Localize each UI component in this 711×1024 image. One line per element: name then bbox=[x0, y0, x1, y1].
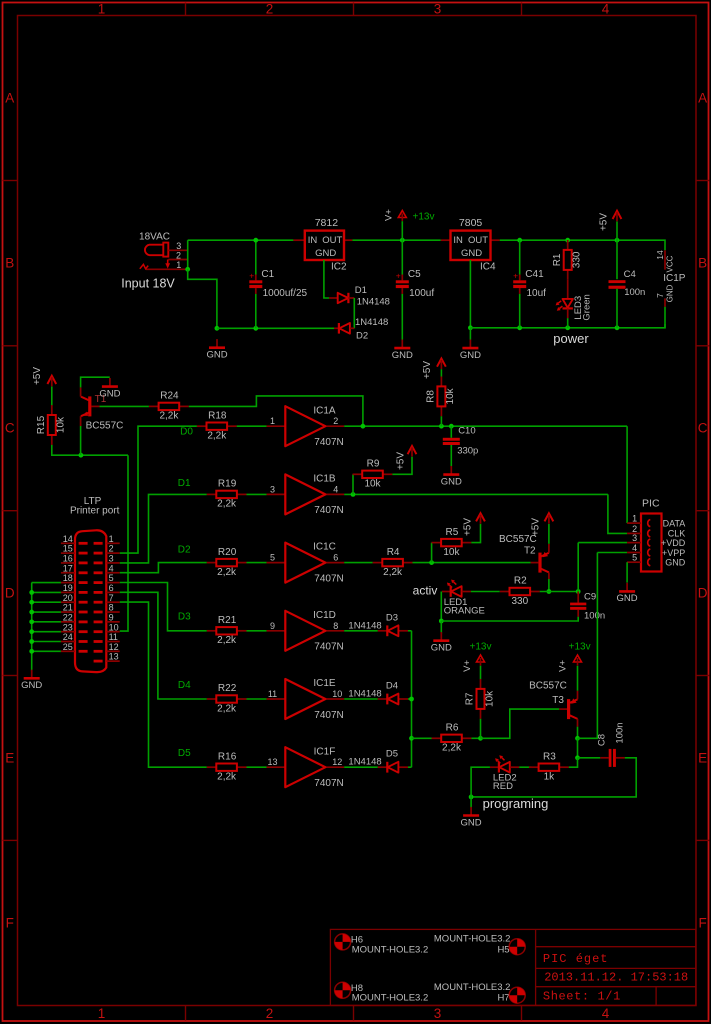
wire to diode D4 bbox=[344, 698, 378, 700]
svg-text:C: C bbox=[698, 421, 708, 436]
wire +VDD vertical bbox=[577, 543, 579, 592]
svg-text:D2: D2 bbox=[178, 545, 191, 556]
svg-text:2: 2 bbox=[109, 544, 114, 554]
svg-text:GND: GND bbox=[21, 680, 42, 691]
svg-text:IC2: IC2 bbox=[331, 261, 347, 272]
svg-text:R18: R18 bbox=[208, 410, 227, 421]
junction bbox=[79, 453, 84, 458]
svg-text:OUT: OUT bbox=[468, 235, 488, 246]
svg-text:R21: R21 bbox=[218, 615, 237, 626]
svg-text:4: 4 bbox=[109, 563, 114, 573]
svg-text:7: 7 bbox=[655, 293, 665, 298]
+5V supply R5 bbox=[463, 513, 485, 536]
diode D5 1N4148 bbox=[348, 749, 408, 773]
resistor R24 2,2k bbox=[149, 391, 189, 422]
wire to diode D5 bbox=[344, 766, 378, 768]
wire D3 out bbox=[408, 630, 412, 632]
buffer IC1B 7407N bbox=[267, 474, 345, 517]
svg-text:R1: R1 bbox=[552, 253, 563, 266]
wire T1 base to R24 bbox=[100, 405, 149, 407]
wire IC1A output / DATA net bbox=[344, 425, 627, 427]
svg-text:6: 6 bbox=[333, 553, 338, 563]
junction bus pin 25 bbox=[29, 649, 34, 654]
svg-text:Input 18V: Input 18V bbox=[121, 277, 175, 291]
svg-text:T2: T2 bbox=[524, 546, 536, 557]
svg-text:+VDD: +VDD bbox=[661, 538, 686, 548]
wire IC2 GND to D1 bbox=[324, 260, 329, 298]
wire diode bus vertical bbox=[411, 631, 413, 767]
junction bbox=[478, 736, 483, 741]
svg-text:B: B bbox=[5, 256, 14, 271]
svg-text:R5: R5 bbox=[446, 527, 459, 538]
PIC pin 2 CLK bbox=[627, 532, 641, 534]
svg-text:GND: GND bbox=[431, 643, 452, 654]
buffer IC1D 7407N bbox=[267, 610, 345, 653]
junction bbox=[409, 697, 414, 702]
svg-text:13: 13 bbox=[267, 757, 277, 767]
svg-text:H7: H7 bbox=[497, 993, 509, 1004]
wire DATA to PIC pin 1 bbox=[626, 426, 628, 523]
mount hole H7 bbox=[509, 987, 525, 1003]
wire R9 to +5V bbox=[392, 457, 412, 475]
LPT pin 10 bbox=[106, 631, 119, 633]
svg-text:+13v: +13v bbox=[470, 642, 492, 653]
svg-text:E: E bbox=[5, 751, 14, 766]
X1 pin 2 bbox=[168, 259, 187, 261]
LPT pin 20 bbox=[61, 601, 75, 603]
junction bbox=[576, 589, 581, 594]
PIC pin 5 GND bbox=[627, 561, 641, 563]
svg-text:10: 10 bbox=[332, 689, 342, 699]
wire D1 to D2 bbox=[353, 298, 355, 328]
wire R4 to T2 base bbox=[413, 562, 531, 564]
svg-text:R24: R24 bbox=[160, 391, 179, 402]
junction bbox=[575, 755, 580, 760]
wire IC2 OUT to IC4 IN bbox=[352, 239, 440, 241]
T3 collector connection bbox=[577, 719, 579, 727]
ground input rail bbox=[206, 339, 227, 360]
wire R8 to DATA net bbox=[440, 416, 442, 426]
svg-text:+5V: +5V bbox=[422, 361, 433, 379]
wire to diode D3 bbox=[344, 630, 378, 632]
svg-text:IN: IN bbox=[308, 235, 318, 246]
mount hole H6 bbox=[335, 934, 351, 950]
svg-text:12: 12 bbox=[109, 642, 119, 652]
LPT pin 6 bbox=[106, 591, 119, 593]
svg-text:C9: C9 bbox=[584, 591, 596, 602]
wire power ground rail bbox=[470, 324, 665, 328]
wire +VPP vertical bbox=[578, 553, 598, 739]
svg-text:R9: R9 bbox=[367, 459, 380, 470]
PIC pin 1 DATA bbox=[627, 522, 641, 524]
svg-text:5: 5 bbox=[270, 553, 275, 563]
svg-text:PIC éget: PIC éget bbox=[543, 952, 609, 966]
svg-text:IC1D: IC1D bbox=[313, 610, 336, 621]
junction bus pin 19 bbox=[29, 590, 34, 595]
junction bbox=[253, 326, 258, 331]
LPT pin 11 bbox=[106, 641, 119, 643]
svg-text:D1: D1 bbox=[178, 478, 191, 489]
wire to LPT pin 10 bbox=[120, 455, 128, 631]
PIC pin 3 +VDD bbox=[627, 542, 641, 544]
svg-text:PIC: PIC bbox=[642, 498, 660, 510]
junction bbox=[253, 238, 258, 243]
T2 emitter arrow bbox=[543, 552, 549, 557]
junction bbox=[565, 325, 570, 330]
svg-text:B: B bbox=[698, 256, 707, 271]
svg-text:C5: C5 bbox=[408, 269, 421, 280]
resistor R6 2,2k bbox=[432, 723, 472, 754]
svg-text:7805: 7805 bbox=[459, 217, 483, 229]
frame column ticks bbox=[185, 3, 187, 16]
svg-text:D: D bbox=[698, 586, 708, 601]
svg-text:5: 5 bbox=[632, 553, 637, 563]
junction bbox=[409, 736, 414, 741]
wire R20 to IC1C input bbox=[247, 562, 267, 564]
LPT pin 17 bbox=[61, 572, 75, 574]
svg-text:+5V: +5V bbox=[32, 367, 43, 385]
svg-text:+: + bbox=[249, 270, 254, 280]
junction bbox=[429, 560, 434, 565]
wire bus to R6 bbox=[412, 737, 432, 739]
resistor R5 10k bbox=[432, 527, 472, 558]
wire input ground rail bbox=[217, 327, 334, 329]
connector X1 18VAC input bbox=[139, 232, 188, 271]
svg-text:2,2k: 2,2k bbox=[207, 431, 227, 442]
T2 collector connection bbox=[548, 572, 550, 579]
LPT pin 5 bbox=[106, 582, 119, 584]
svg-text:Sheet: 1/1: Sheet: 1/1 bbox=[543, 990, 621, 1004]
resistor R21 2,2k bbox=[207, 615, 247, 646]
led LED1 ORANGE bbox=[442, 580, 485, 617]
svg-text:R8: R8 bbox=[426, 390, 437, 403]
svg-text:2,2k: 2,2k bbox=[217, 567, 237, 578]
buffer IC1A 7407N bbox=[267, 405, 345, 448]
svg-text:4: 4 bbox=[602, 1006, 610, 1021]
svg-text:V+: V+ bbox=[462, 660, 473, 672]
wire to ground bbox=[440, 621, 442, 634]
junction bbox=[351, 492, 356, 497]
svg-text:power: power bbox=[553, 331, 589, 346]
junction bbox=[469, 795, 474, 800]
V+ supply at C5 bbox=[383, 209, 406, 221]
svg-text:DATA: DATA bbox=[663, 518, 686, 528]
junction bbox=[615, 325, 620, 330]
capacitor C10 330p bbox=[443, 425, 479, 466]
wire LPT pin 23 to ground bus bbox=[32, 631, 61, 633]
svg-text:330: 330 bbox=[572, 251, 583, 268]
svg-text:4: 4 bbox=[632, 543, 637, 553]
wire R3 to collector node bbox=[569, 758, 578, 767]
wire C8 to ground node bbox=[471, 758, 636, 797]
svg-text:1: 1 bbox=[98, 2, 106, 17]
wire T1 emitter down bbox=[80, 426, 82, 455]
diode D2 1N4148 bbox=[334, 317, 388, 341]
svg-text:activ: activ bbox=[413, 583, 438, 597]
wire +VDD to PIC pin 3 bbox=[578, 542, 627, 544]
wire LPT pin 22 to ground bus bbox=[32, 621, 61, 623]
+5V supply T2 bbox=[530, 513, 553, 536]
capacitor C1 1000uf/25 bbox=[249, 269, 307, 299]
svg-text:10k: 10k bbox=[364, 479, 381, 490]
wire LED3 to rail bbox=[567, 318, 569, 328]
svg-text:GND: GND bbox=[441, 476, 462, 487]
svg-text:D2: D2 bbox=[356, 330, 368, 341]
svg-text:5: 5 bbox=[109, 573, 114, 583]
mount hole H5 bbox=[509, 939, 525, 955]
X1 pin 1 bbox=[146, 268, 188, 270]
LPT pin 23 bbox=[61, 631, 75, 633]
svg-text:15: 15 bbox=[63, 544, 73, 554]
wire R19 to IC1B input bbox=[247, 493, 267, 495]
svg-text:A: A bbox=[5, 91, 14, 106]
svg-text:R16: R16 bbox=[218, 751, 237, 762]
svg-text:6: 6 bbox=[109, 583, 114, 593]
wire +5V to R8 bbox=[440, 369, 442, 377]
svg-text:23: 23 bbox=[63, 622, 73, 632]
wire C10 top bbox=[450, 426, 452, 438]
svg-text:19: 19 bbox=[63, 583, 73, 593]
T1 collector connection bbox=[80, 387, 82, 396]
resistor R19 2,2k bbox=[207, 479, 247, 510]
svg-text:2: 2 bbox=[333, 416, 338, 426]
svg-text:D: D bbox=[5, 586, 15, 601]
LPT pin 3 bbox=[106, 562, 119, 564]
svg-text:7407N: 7407N bbox=[314, 642, 343, 653]
diode D1 1N4148 bbox=[329, 285, 390, 307]
wire R15 to T1 emitter node bbox=[52, 445, 128, 455]
T3 emitter arrow bbox=[571, 698, 577, 703]
junction bbox=[565, 238, 570, 243]
junction X1 pin1 bbox=[185, 267, 190, 272]
wire node to T3 base bbox=[481, 709, 560, 738]
svg-text:E: E bbox=[698, 751, 707, 766]
ground C5 bbox=[392, 340, 413, 361]
junction bbox=[439, 424, 444, 429]
svg-text:330p: 330p bbox=[457, 446, 478, 457]
svg-text:R15: R15 bbox=[36, 415, 47, 434]
svg-text:R2: R2 bbox=[514, 576, 527, 587]
wire C41 top bbox=[519, 240, 521, 275]
svg-text:R4: R4 bbox=[387, 547, 400, 558]
junction bus pin 21 bbox=[29, 610, 34, 615]
svg-text:D3: D3 bbox=[178, 612, 191, 623]
svg-text:20: 20 bbox=[63, 593, 73, 603]
svg-text:2,2k: 2,2k bbox=[217, 772, 237, 783]
svg-text:+13v: +13v bbox=[569, 642, 591, 653]
+5V supply R9 bbox=[395, 446, 416, 470]
wire IC1P GND pin bbox=[664, 307, 666, 328]
junction bus pin 22 bbox=[29, 619, 34, 624]
wire R2 to T2 collector node bbox=[540, 591, 579, 593]
wire CLK to PIC pin 2 bbox=[608, 494, 627, 533]
junction bus pin 20 bbox=[29, 600, 34, 605]
wire net D0 to LPT pin 2 bbox=[120, 426, 197, 553]
svg-text:11: 11 bbox=[109, 632, 118, 642]
svg-text:10k: 10k bbox=[445, 387, 456, 404]
ground IC4 bbox=[460, 340, 481, 361]
svg-text:1: 1 bbox=[632, 514, 637, 524]
resistor R1 330 bbox=[552, 240, 583, 280]
wire LPT pin 21 to ground bus bbox=[32, 611, 61, 613]
svg-text:+: + bbox=[396, 270, 401, 280]
wire R6 to node bbox=[471, 737, 480, 739]
connector PIC programming header bbox=[641, 498, 662, 572]
svg-text:14: 14 bbox=[655, 250, 665, 260]
svg-text:A: A bbox=[698, 91, 707, 106]
junction bbox=[575, 736, 580, 741]
wire T2 collector down bbox=[548, 579, 550, 592]
svg-text:8: 8 bbox=[109, 603, 114, 613]
ground T1 bbox=[99, 378, 120, 399]
svg-text:GND: GND bbox=[665, 558, 686, 568]
svg-text:IN: IN bbox=[453, 235, 463, 246]
wire LED2 to R3 bbox=[519, 766, 531, 768]
svg-text:7407N: 7407N bbox=[314, 710, 343, 721]
wire net D2 to LPT pin 4 bbox=[120, 563, 207, 573]
junction bbox=[517, 325, 522, 330]
resistor R16 2,2k bbox=[207, 751, 247, 782]
LPT pin 12 bbox=[106, 650, 119, 652]
wire C9 to ground node bbox=[441, 617, 578, 621]
capacitor C5 100uf bbox=[396, 269, 435, 299]
svg-text:C4: C4 bbox=[624, 269, 636, 280]
transistor T3 BC557C bbox=[529, 681, 577, 719]
LPT pin 7 bbox=[106, 601, 119, 603]
junction bbox=[468, 325, 473, 330]
X1 pin 3 bbox=[168, 249, 187, 251]
wire R18 to IC1A input bbox=[237, 425, 267, 427]
ground C10 bbox=[441, 466, 462, 487]
wire net D5 to LPT pin 7 bbox=[120, 602, 207, 767]
wire C4 bottom bbox=[616, 289, 618, 328]
svg-text:+5V: +5V bbox=[463, 518, 474, 536]
svg-text:10uf: 10uf bbox=[527, 288, 547, 299]
svg-text:F: F bbox=[6, 916, 14, 931]
svg-text:MOUNT-HOLE3.2: MOUNT-HOLE3.2 bbox=[434, 933, 511, 944]
X1 wiper arrow bbox=[167, 260, 169, 264]
wire C4 top bbox=[616, 240, 618, 279]
svg-text:10k: 10k bbox=[443, 547, 460, 558]
svg-text:2: 2 bbox=[266, 2, 274, 17]
resistor R8 10k bbox=[426, 377, 457, 417]
svg-text:9: 9 bbox=[270, 621, 275, 631]
svg-text:+5V: +5V bbox=[599, 213, 610, 231]
svg-text:+5V: +5V bbox=[395, 452, 406, 470]
svg-text:2,2k: 2,2k bbox=[442, 743, 462, 754]
svg-text:1N4148: 1N4148 bbox=[348, 689, 381, 700]
wire R1 top bbox=[567, 240, 569, 246]
svg-text:OUT: OUT bbox=[322, 235, 342, 246]
svg-text:MOUNT-HOLE3.2: MOUNT-HOLE3.2 bbox=[352, 993, 429, 1004]
wire to ground bbox=[470, 797, 472, 808]
wire C1 bottom bbox=[255, 294, 257, 328]
svg-text:F: F bbox=[698, 916, 706, 931]
svg-text:C1: C1 bbox=[261, 269, 274, 280]
svg-text:2,2k: 2,2k bbox=[159, 411, 179, 422]
wire T3 emitter to V+ bbox=[577, 666, 579, 691]
svg-text:11: 11 bbox=[268, 689, 277, 699]
svg-text:C8: C8 bbox=[597, 734, 608, 746]
transistor T2 BC557C bbox=[499, 534, 549, 572]
LPT pin 13 bbox=[106, 660, 119, 662]
wire to R5 bbox=[431, 543, 433, 563]
svg-text:2,2k: 2,2k bbox=[217, 499, 237, 510]
led LED2 RED bbox=[490, 755, 519, 792]
svg-text:H5: H5 bbox=[497, 944, 509, 955]
svg-text:R20: R20 bbox=[218, 547, 237, 558]
svg-text:RED: RED bbox=[493, 781, 513, 792]
junction bus pin 24 bbox=[29, 639, 34, 644]
svg-text:13: 13 bbox=[109, 652, 119, 662]
LPT pin 25 bbox=[61, 650, 75, 652]
wire LPT pin 24 to ground bus bbox=[32, 641, 61, 643]
svg-text:GND: GND bbox=[206, 350, 227, 361]
svg-text:R3: R3 bbox=[543, 751, 556, 762]
resistor R7 10k bbox=[465, 679, 496, 719]
junction bbox=[449, 424, 454, 429]
svg-text:100uf: 100uf bbox=[409, 288, 434, 299]
wire to ground bbox=[469, 328, 471, 340]
ground PIC bbox=[617, 583, 638, 604]
svg-text:GND: GND bbox=[461, 817, 482, 828]
svg-text:VCC: VCC bbox=[666, 255, 675, 272]
ground LED2 bbox=[461, 807, 482, 828]
LPT pin 4 bbox=[106, 572, 119, 574]
LPT pin 1 bbox=[106, 542, 119, 544]
ground LED1 bbox=[431, 632, 452, 653]
svg-text:1N4148: 1N4148 bbox=[357, 296, 390, 307]
svg-text:7: 7 bbox=[109, 593, 114, 603]
svg-text:R7: R7 bbox=[465, 692, 476, 705]
svg-text:18VAC: 18VAC bbox=[139, 232, 170, 243]
junction bus pin 23 bbox=[29, 629, 34, 634]
svg-text:GND: GND bbox=[315, 248, 336, 259]
wire IC1B output / CLK net bbox=[344, 493, 608, 495]
wire D4 out bbox=[408, 698, 412, 700]
svg-text:2,2k: 2,2k bbox=[217, 703, 237, 714]
resistor R4 2,2k bbox=[373, 547, 413, 578]
svg-text:C41: C41 bbox=[525, 269, 544, 280]
capacitor C4 100n bbox=[609, 269, 646, 298]
svg-text:8: 8 bbox=[333, 621, 338, 631]
svg-text:1N4148: 1N4148 bbox=[355, 317, 388, 328]
svg-text:1: 1 bbox=[176, 260, 181, 270]
diode D4 1N4148 bbox=[348, 681, 408, 705]
svg-text:GND: GND bbox=[666, 284, 675, 302]
+5V supply R8 bbox=[422, 359, 446, 380]
buffer IC1F 7407N bbox=[267, 746, 345, 789]
LPT pin 24 bbox=[61, 641, 75, 643]
svg-text:IC4: IC4 bbox=[480, 261, 496, 272]
svg-text:330: 330 bbox=[511, 596, 528, 607]
svg-text:GND: GND bbox=[392, 350, 413, 361]
svg-text:7812: 7812 bbox=[315, 217, 339, 229]
svg-text:18: 18 bbox=[63, 573, 73, 583]
LPT pin 19 bbox=[61, 591, 75, 593]
LPT pin 14 bbox=[61, 542, 75, 544]
svg-text:BC557C: BC557C bbox=[86, 420, 124, 431]
ground LPT bbox=[21, 670, 42, 691]
svg-text:3: 3 bbox=[632, 533, 637, 543]
resistor R22 2,2k bbox=[207, 683, 247, 714]
svg-text:2013.11.12. 17:53:18: 2013.11.12. 17:53:18 bbox=[544, 971, 688, 985]
wire T1 collector to ground bbox=[81, 377, 110, 387]
connector LTP printer port DB25 bbox=[75, 530, 106, 672]
svg-text:GND: GND bbox=[99, 388, 120, 399]
transistor T1 BC557C bbox=[81, 394, 124, 432]
wire net D3 to LPT pin 5 bbox=[120, 583, 207, 631]
